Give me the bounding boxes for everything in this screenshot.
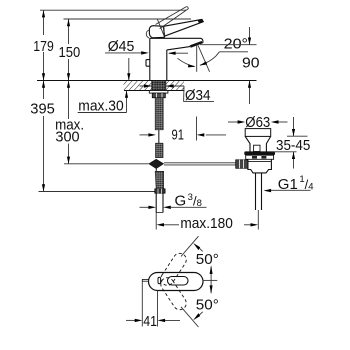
svg-text:395: 395 bbox=[30, 101, 55, 118]
svg-text:41: 41 bbox=[143, 313, 157, 330]
dimension 179 reference line top bbox=[40, 9, 186, 11]
Ø34 leader diagonal bbox=[183, 86, 185, 102]
countertop hatching left bbox=[124, 81, 152, 90]
dimension 150 reference line top bbox=[64, 18, 192, 20]
aerator dark tip bbox=[190, 41, 203, 48]
hose end nut bbox=[155, 189, 165, 193]
top view handle stadium bbox=[168, 277, 189, 286]
mounting nut bbox=[152, 93, 165, 98]
svg-text:179: 179 bbox=[33, 38, 54, 55]
Ø63 dimension arrows bbox=[228, 120, 288, 123]
faucet spout underside bbox=[167, 47, 190, 50]
svg-text:90: 90 bbox=[242, 55, 260, 72]
svg-text:50°: 50° bbox=[196, 251, 219, 268]
dimension 90 down arrow bbox=[248, 27, 251, 45]
svg-text:max.180: max.180 bbox=[180, 215, 233, 232]
countertop hatching right bbox=[166, 81, 184, 90]
top view pill body bbox=[149, 273, 204, 291]
pop-up waste body bbox=[248, 159, 272, 173]
50deg lower arrow bbox=[193, 312, 203, 320]
dimension 179 vertical line bbox=[42, 10, 45, 80]
svg-text:35-45: 35-45 bbox=[276, 137, 310, 154]
svg-text:91: 91 bbox=[172, 127, 185, 144]
20 degree left arc with arrow bbox=[178, 58, 196, 67]
top view aerator tick bbox=[158, 277, 161, 283]
pop-up waste taper neck bbox=[245, 136, 271, 151]
20deg underline bbox=[219, 51, 248, 53]
horizontal pop-up rod bbox=[164, 163, 236, 165]
pop-up waste stem knob bbox=[254, 145, 260, 151]
svg-text:Ø63: Ø63 bbox=[245, 114, 270, 131]
countertop bottom line bbox=[124, 90, 185, 92]
20 degree right arc with arrow bbox=[200, 52, 220, 66]
ghost handle upper dashed bbox=[158, 251, 188, 288]
svg-text:50°: 50° bbox=[196, 296, 219, 313]
pop-up rod diamond joint bbox=[149, 159, 163, 168]
Ø34 underline bbox=[184, 101, 214, 103]
50deg upper ray bbox=[181, 236, 199, 256]
hose connection tube G3/8 bbox=[156, 193, 163, 212]
dimension 90 up arrow bbox=[248, 81, 251, 105]
faucet shank threaded through counter bbox=[152, 81, 166, 91]
wire below diamond bbox=[155, 168, 157, 172]
handle ghost inner line bbox=[158, 20, 164, 36]
swing arc double arrow bbox=[203, 265, 218, 294]
dimension max.180 bbox=[156, 210, 258, 230]
max.30 down arrow bbox=[127, 58, 130, 81]
svg-text:max.30: max.30 bbox=[78, 97, 123, 114]
50deg lower ray bbox=[181, 307, 199, 327]
svg-text:300: 300 bbox=[55, 128, 79, 145]
handle raised ghost blade bbox=[156, 7, 189, 29]
spout outlet reference line bbox=[200, 44, 257, 46]
handle lever solid blade bbox=[164, 19, 204, 36]
max.30 underline bbox=[78, 112, 127, 114]
pull rod knob on body bbox=[146, 60, 150, 67]
handle boss bbox=[149, 26, 164, 38]
handle lever tip dark bbox=[198, 19, 204, 23]
dimension 395 vertical line bbox=[42, 81, 45, 192]
flexible supply hose braided bbox=[155, 98, 163, 130]
Ø45 right-side arrow pointing left bbox=[168, 52, 188, 55]
svg-text:20°: 20° bbox=[224, 36, 248, 53]
Ø45 arrow right bbox=[141, 51, 149, 54]
G1 1/4 arrow bbox=[264, 189, 272, 192]
20 degree vertical ray bbox=[196, 44, 198, 72]
dimension 35-45 bbox=[271, 117, 308, 169]
pull rod wire bbox=[158, 130, 160, 143]
Ø45 underline leader bbox=[105, 52, 142, 54]
dimension 395 bottom reference line bbox=[39, 191, 155, 193]
max.300 bottom reference line bbox=[64, 163, 149, 165]
countertop top line bbox=[37, 80, 257, 82]
svg-text:G3/8: G3/8 bbox=[175, 192, 202, 210]
faucet spout top bbox=[150, 38, 203, 43]
ghost handle lower dashed bbox=[158, 275, 188, 312]
waste tailpipe bbox=[256, 173, 262, 210]
pop-up waste flange lower ring bbox=[246, 155, 274, 159]
50deg upper arrow bbox=[193, 243, 203, 251]
dimension 41 bbox=[126, 281, 180, 326]
G3/8 arrows bbox=[140, 206, 207, 209]
dimension max.300 vertical line bbox=[67, 81, 70, 164]
faucet body column bbox=[150, 38, 167, 80]
max.30 up arrow bbox=[125, 91, 128, 113]
20 degree slanted ray bbox=[198, 45, 210, 72]
Ø34 arrows at counter hole bbox=[140, 84, 185, 87]
dimension 91 bbox=[140, 117, 227, 141]
G1 1/4 leader underline bbox=[269, 189, 311, 191]
top view spout stub bbox=[142, 279, 148, 281]
pop-up rod left nut bbox=[236, 160, 248, 169]
dimension 150 vertical line bbox=[67, 19, 70, 81]
pop-up waste flange dark bbox=[244, 151, 275, 155]
handle boss ear bbox=[146, 30, 149, 38]
mounting washer bbox=[149, 91, 168, 94]
svg-text:150: 150 bbox=[59, 44, 81, 61]
pop-up waste cap bbox=[245, 129, 271, 137]
rod adjuster knurled block bbox=[156, 143, 164, 157]
